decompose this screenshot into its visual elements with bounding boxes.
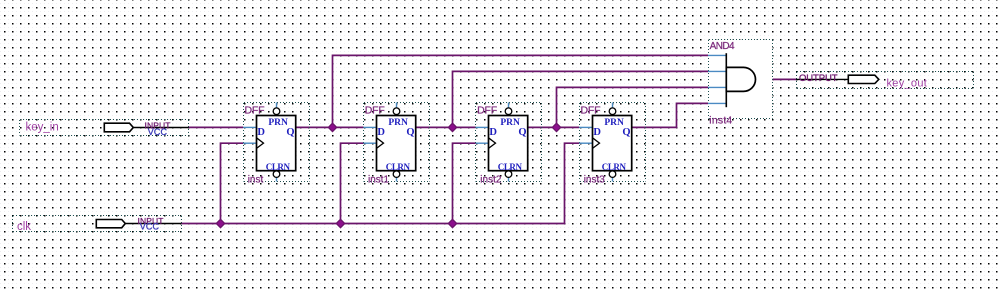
clock triangle (inst3) — [593, 138, 600, 149]
svg-text:CLRN: CLRN — [498, 162, 523, 172]
svg-text:D: D — [593, 127, 601, 138]
pin stub D input (inst2) — [476, 126, 489, 128]
input pin arrow symbol — [96, 220, 125, 228]
svg-text:key_in: key_in — [26, 122, 59, 134]
body rectangle (inst3) — [593, 116, 632, 171]
output pin key_out — [797, 72, 974, 89]
wire DFF2 Q up to AND4 input 2 — [453, 71, 709, 127]
svg-text:PRN: PRN — [500, 118, 520, 128]
wire AND4 output to key_out — [756, 78, 797, 80]
pin stub CLRN (inst2) — [508, 177, 510, 181]
PRN active-low bubble (inst1) — [393, 108, 400, 115]
svg-text:OUTPUT: OUTPUT — [799, 73, 838, 84]
AND4 gate inst4 — [708, 39, 773, 118]
pin stub clock input (inst) — [243, 142, 256, 144]
pin stub PRN (inst1) — [396, 103, 398, 108]
input pin arrow symbol — [104, 123, 133, 132]
clock triangle (inst2) — [489, 138, 496, 149]
wire DFF4 Q to AND4 input 4 — [631, 103, 708, 127]
CLRN active-low bubble (inst1) — [393, 171, 400, 178]
pin stub PRN (inst) — [276, 103, 278, 108]
svg-text:Q: Q — [622, 127, 630, 138]
svg-text:inst2: inst2 — [480, 175, 502, 186]
junction node clk tap 2 — [336, 219, 344, 227]
body rectangle (inst2) — [489, 116, 528, 171]
PRN active-low bubble (inst2) — [505, 108, 512, 115]
pin stub CLRN (inst1) — [396, 177, 398, 181]
svg-text:PRN: PRN — [388, 118, 408, 128]
D flip-flop DFF inst — [244, 103, 310, 182]
svg-text:CLRN: CLRN — [386, 162, 411, 172]
svg-text:VCC: VCC — [140, 221, 160, 231]
body rectangle (inst) — [257, 116, 296, 171]
svg-text:Q: Q — [518, 127, 526, 138]
wire key_in pin stub — [133, 127, 189, 129]
svg-text:Q: Q — [406, 127, 414, 138]
svg-text:inst1: inst1 — [368, 175, 390, 186]
wire clk tap to DFF1 — [221, 143, 244, 223]
PRN active-low bubble (inst3) — [609, 108, 616, 115]
wire DFF2 Q to DFF3 D — [415, 126, 476, 128]
svg-text:inst3: inst3 — [584, 175, 606, 186]
wire DFF1 Q up to AND4 input 1 — [333, 55, 709, 127]
svg-text:CLRN: CLRN — [602, 162, 627, 172]
wire clk tap to DFF2 — [341, 143, 364, 223]
CLRN active-low bubble (inst) — [273, 171, 280, 178]
svg-text:VCC: VCC — [148, 127, 168, 137]
wire clk rail — [182, 143, 580, 223]
pin stub PRN (inst2) — [508, 103, 510, 108]
AND4 gate body — [726, 67, 755, 91]
svg-text:PRN: PRN — [268, 118, 288, 128]
svg-text:D: D — [377, 127, 385, 138]
pin stub clock input (inst2) — [476, 142, 489, 144]
PRN active-low bubble (inst) — [273, 108, 280, 115]
D flip-flop DFF inst3 — [580, 103, 646, 182]
wire clk pin stub — [125, 223, 181, 225]
output pin arrow symbol — [848, 75, 879, 83]
wire key_out pin stub — [796, 78, 848, 80]
clock triangle (inst1) — [377, 138, 384, 149]
junction node Q1 — [328, 123, 336, 131]
pin stub D input (inst1) — [364, 126, 377, 128]
svg-text:clk: clk — [17, 221, 31, 233]
pin stub CLRN (inst3) — [612, 177, 614, 181]
wire DFF1 Q to DFF2 D — [295, 126, 363, 128]
pin stub D input (inst) — [243, 126, 256, 128]
wire clk tap to DFF3 — [453, 143, 476, 223]
svg-text:inst: inst — [248, 175, 264, 186]
junction node Q2 — [448, 123, 456, 131]
svg-text:D: D — [257, 127, 265, 138]
CLRN active-low bubble (inst3) — [609, 171, 616, 178]
junction node clk tap 1 — [216, 219, 224, 227]
pin stub CLRN (inst) — [276, 177, 278, 181]
D flip-flop DFF inst2 — [476, 103, 542, 182]
clock triangle (inst) — [257, 138, 264, 149]
input pin key_in — [20, 120, 189, 136]
pin stub PRN (inst3) — [612, 103, 614, 108]
AND4 input bar — [725, 53, 727, 107]
wire key_in to DFF1 D — [189, 126, 243, 128]
body rectangle (inst1) — [377, 116, 416, 171]
svg-text:inst4: inst4 — [709, 115, 732, 127]
svg-text:key_out: key_out — [887, 78, 928, 90]
D flip-flop DFF inst1 — [364, 103, 430, 182]
svg-text:CLRN: CLRN — [266, 162, 291, 172]
pin stub clock input (inst3) — [579, 142, 592, 144]
pin stub D input (inst3) — [579, 126, 592, 128]
svg-text:Q: Q — [286, 127, 294, 138]
svg-text:D: D — [489, 127, 497, 138]
wire DFF3 Q up to AND4 input 3 — [557, 87, 709, 127]
junction node clk tap 3 — [448, 219, 456, 227]
junction node Q3 — [552, 123, 560, 131]
svg-text:AND4: AND4 — [710, 41, 735, 52]
CLRN active-low bubble (inst2) — [505, 171, 512, 178]
pin stubs AND4 inputs 1-4 — [708, 55, 726, 103]
svg-text:PRN: PRN — [604, 118, 624, 128]
wire DFF3 Q to DFF4 D — [527, 126, 579, 128]
pin stub clock input (inst1) — [364, 142, 377, 144]
input pin clk — [13, 216, 182, 232]
